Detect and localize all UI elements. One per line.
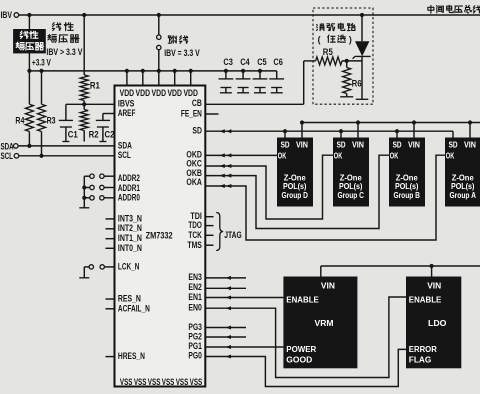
svg-text:SD: SD: [192, 125, 202, 135]
svg-text:IBV = 3.3 V: IBV = 3.3 V: [164, 48, 200, 58]
svg-text:VSS: VSS: [148, 377, 161, 387]
svg-text:VSS: VSS: [120, 377, 133, 387]
svg-text:INT1_N: INT1_N: [118, 233, 142, 243]
svg-text:TCK: TCK: [188, 230, 202, 240]
svg-text:SD: SD: [281, 139, 290, 149]
svg-text:VDD: VDD: [183, 88, 198, 98]
svg-text:ERROR: ERROR: [409, 344, 438, 354]
svg-text:R2: R2: [89, 129, 99, 139]
svg-text:VIN: VIN: [427, 280, 441, 290]
svg-text:(: (: [318, 35, 321, 45]
svg-text:VIN: VIN: [408, 139, 420, 149]
svg-text:VDD: VDD: [120, 88, 135, 98]
svg-text:JTAG: JTAG: [224, 230, 242, 240]
svg-text:SCL: SCL: [118, 150, 131, 160]
svg-text:EN0: EN0: [188, 302, 202, 312]
svg-text:R1: R1: [90, 81, 100, 91]
svg-text:ACFAIL_N: ACFAIL_N: [118, 303, 150, 313]
svg-text:EN3: EN3: [188, 272, 202, 282]
svg-text:OKC: OKC: [186, 159, 202, 169]
svg-text:VIN: VIN: [464, 139, 476, 149]
svg-text:VDD: VDD: [167, 88, 182, 98]
svg-text:GOOD: GOOD: [286, 354, 312, 364]
svg-text:ADDR0: ADDR0: [118, 193, 140, 203]
svg-text:PG1: PG1: [188, 341, 202, 351]
svg-text:SCL: SCL: [1, 151, 14, 161]
svg-text:C5: C5: [257, 57, 267, 67]
svg-text:Group D: Group D: [281, 190, 308, 200]
svg-text:OKA: OKA: [186, 177, 202, 187]
svg-text:VSS: VSS: [134, 377, 147, 387]
svg-text:OK: OK: [334, 150, 343, 160]
svg-text:FE_EN: FE_EN: [181, 108, 202, 118]
svg-text:CB: CB: [192, 98, 202, 108]
svg-text:LDO: LDO: [428, 318, 447, 328]
svg-text:RES_N: RES_N: [118, 294, 141, 304]
svg-text:SD: SD: [449, 139, 458, 149]
svg-text:EN1: EN1: [188, 292, 202, 302]
svg-text:Group C: Group C: [337, 190, 364, 200]
svg-text:SD: SD: [337, 139, 346, 149]
svg-text:VIN: VIN: [296, 139, 308, 149]
svg-text:PG2: PG2: [188, 331, 202, 341]
svg-text:C1: C1: [68, 129, 78, 139]
svg-text:ZM7332: ZM7332: [146, 231, 173, 241]
svg-text:TMS: TMS: [187, 240, 202, 250]
svg-text:IBV: IBV: [1, 10, 13, 21]
svg-text:SDA: SDA: [1, 141, 15, 151]
svg-text:OK: OK: [390, 150, 399, 160]
svg-text:VRM: VRM: [315, 318, 334, 328]
svg-text:INT0_N: INT0_N: [118, 243, 142, 253]
svg-text:OK: OK: [446, 150, 455, 160]
svg-text:C4: C4: [240, 57, 250, 67]
svg-text:Group B: Group B: [393, 190, 420, 200]
svg-text:FLAG: FLAG: [409, 354, 432, 364]
svg-text:VIN: VIN: [352, 139, 364, 149]
svg-text:POWER: POWER: [286, 344, 317, 354]
svg-text:): ): [349, 35, 352, 45]
svg-text:PG0: PG0: [188, 351, 202, 361]
svg-text:Group A: Group A: [449, 190, 476, 200]
svg-text:ADDR2: ADDR2: [118, 173, 140, 183]
svg-text:C6: C6: [273, 57, 283, 67]
svg-text:OK: OK: [278, 150, 287, 160]
svg-text:EN2: EN2: [188, 282, 202, 292]
svg-text:AREF: AREF: [118, 108, 136, 118]
svg-text:VIN: VIN: [321, 280, 335, 290]
svg-text:ENABLE: ENABLE: [409, 295, 442, 305]
svg-text:VDD: VDD: [152, 88, 167, 98]
svg-text:R4: R4: [15, 115, 24, 125]
svg-text:R3: R3: [47, 115, 56, 125]
svg-text:IBVS: IBVS: [118, 98, 134, 108]
svg-text:VSS: VSS: [176, 377, 189, 387]
svg-text:VSS: VSS: [190, 377, 203, 387]
svg-text:SDA: SDA: [118, 140, 132, 150]
svg-text:LCK_N: LCK_N: [118, 261, 139, 271]
svg-text:TDO: TDO: [188, 220, 202, 230]
svg-text:SD: SD: [393, 139, 402, 149]
svg-text:IBV > 3.3 V: IBV > 3.3 V: [46, 47, 82, 57]
svg-text:+3.3 V: +3.3 V: [32, 58, 51, 68]
svg-text:ENABLE: ENABLE: [286, 295, 319, 305]
svg-text:VSS: VSS: [162, 377, 175, 387]
svg-text:ADDR1: ADDR1: [118, 183, 140, 193]
svg-text:C3: C3: [223, 57, 233, 67]
svg-text:R5: R5: [323, 47, 333, 57]
svg-text:R6: R6: [352, 78, 362, 88]
svg-text:VDD: VDD: [136, 88, 151, 98]
svg-text:HRES_N: HRES_N: [118, 351, 145, 361]
svg-text:INT3_N: INT3_N: [118, 213, 142, 223]
svg-text:C2: C2: [105, 129, 115, 139]
svg-text:INT2_N: INT2_N: [118, 223, 142, 233]
